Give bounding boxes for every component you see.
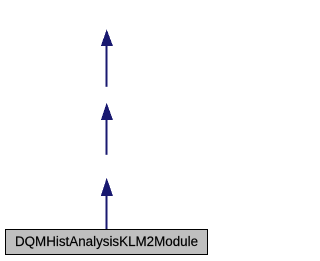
inheritance arrow 1 (top): wire — [106, 46, 108, 87]
svg-text:DQMHistAnalysisKLM2Module: DQMHistAnalysisKLM2Module — [15, 234, 198, 249]
inheritance arrow 1 (top): head — [101, 29, 113, 46]
class box DQMHistAnalysisKLM2Module — [6, 230, 208, 255]
inheritance arrow 3 (bottom): wire — [106, 196, 108, 230]
inheritance arrow 2 (middle): head — [101, 103, 113, 120]
inheritance arrow 2 (middle): wire — [106, 120, 108, 155]
inheritance arrow 3 (bottom): head — [101, 178, 113, 196]
